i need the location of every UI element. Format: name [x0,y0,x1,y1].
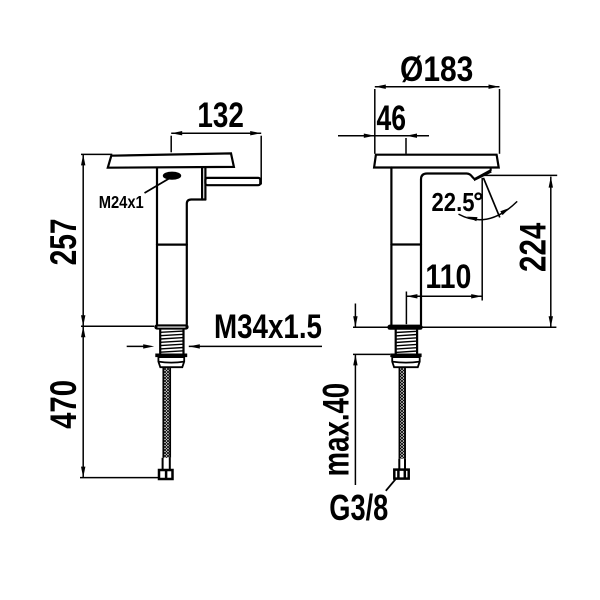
ext line diam 183 right [499,89,501,154]
arrow max40 bottom [353,354,357,365]
dim line 132 [171,132,261,134]
column left edge [390,168,392,325]
hose end ref line left view [80,477,159,479]
dim line 470 [82,326,84,477]
svg-text:max.40: max.40 [316,383,357,477]
escutcheon ring (right view) [387,325,422,330]
arrow diam183 right [489,85,500,89]
column joint line [391,243,421,245]
svg-text:257: 257 [43,218,84,265]
outlet corner tick [490,168,492,171]
dim line 257 [82,154,84,326]
thread hatching (right view) [396,331,417,352]
arrow 46 left [364,134,375,138]
locknut band (right view) [390,354,421,358]
counter line right view [353,326,556,328]
svg-text:Ø183: Ø183 [400,49,473,89]
hose end fitting (left view) [159,470,173,479]
body joint line [157,244,187,246]
lever stem line b [204,168,206,200]
degree symbol for 22.5 [475,193,481,199]
arrow 224 bottom [549,316,553,327]
lever handle bar [205,178,260,185]
base plate (right view) [374,155,499,168]
arrow 110 right [471,294,482,298]
arrow 132 right [250,131,261,135]
escutcheon ring (left view) [154,324,188,329]
max.40 dim line lower [354,354,356,485]
ext line 46 [405,138,407,154]
svg-text:G3/8: G3/8 [329,487,388,528]
flexible hose (left view) [163,367,170,458]
dim line diam 183 [375,86,500,88]
arrow 132 left [171,131,182,135]
M34x1.5 leader line right [189,345,322,347]
flexible hose (right view) [399,367,405,459]
arrow 110 left [406,294,417,298]
ext line 110 right / angle ref [481,178,483,301]
arrow 470 top [81,326,85,337]
dim line 110 [406,295,482,297]
arrow 257 bottom [81,315,85,326]
svg-text:22.5: 22.5 [432,187,475,217]
hose end tube (right view) [399,459,405,470]
arrow angle arc right [500,208,510,215]
svg-text:M34x1.5: M34x1.5 [214,308,322,346]
svg-text:46: 46 [377,98,407,138]
arrow 46 right [406,134,417,138]
arrow max40 top [353,316,357,327]
ext line 110 left [405,292,407,325]
arrow 257 top [81,154,85,165]
spout top plate (left view) [108,153,234,167]
arrow angle arc left [467,217,478,222]
thread left edge [395,330,397,354]
arrow M34 left [143,344,154,348]
arrow 224 top [549,177,553,188]
hose end tube (left view) [163,458,170,470]
hose end fitting (right view) [394,470,408,479]
dim line 46 [338,135,429,137]
svg-text:470: 470 [43,380,84,429]
ext line 224 top [481,174,557,176]
body left edge [156,168,158,325]
svg-text:224: 224 [512,222,553,272]
arrow M34 right [189,344,200,348]
counter line left view [81,325,154,327]
max.40 lower ref line [353,353,390,355]
angle arc [459,201,518,219]
svg-text:132: 132 [197,95,244,135]
arrow diam183 left [375,85,386,89]
dim line 224 [550,177,552,328]
aerator (left view) [163,172,181,180]
column right edge and spout top [421,174,475,325]
leader G3/8 [386,479,396,491]
angle ray 22.5 deg [483,178,499,218]
max.40 dim line upper [354,304,356,328]
locknut body (left view) [158,357,184,367]
svg-text:M24x1: M24x1 [99,192,144,212]
ext line top of 257 [81,153,112,155]
locknut band (left view) [155,354,187,358]
body step and lower right edge [187,200,206,325]
ext line 132 right [260,136,262,185]
M34x1.5 arrow tail left [127,345,145,347]
ext line 132 left [170,136,172,153]
svg-text:110: 110 [425,258,471,296]
spout outlet wedge [474,169,492,181]
lever stem line a [201,168,203,200]
thread left edge [159,330,161,354]
thread hatching (left view) [160,331,183,352]
locknut body (right view) [392,357,420,367]
arrow 470 bottom [81,467,85,478]
thread right edge [182,330,184,354]
leader M24x1 [145,178,171,194]
ext line diam 183 left [374,89,376,154]
thread right edge [416,330,418,354]
